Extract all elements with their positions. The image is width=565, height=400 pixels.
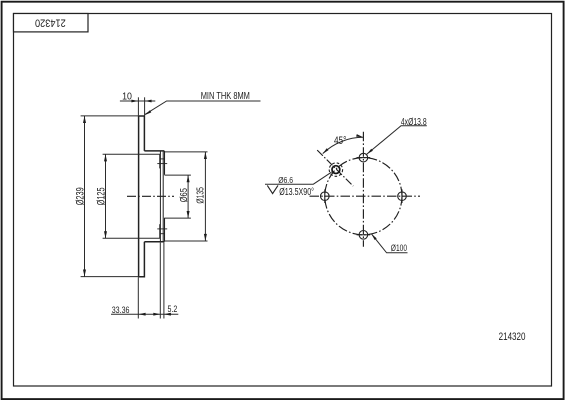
dim 125 extension top xyxy=(103,153,161,155)
arrow 135 bottom xyxy=(204,234,207,241)
bolt hole left xyxy=(321,192,330,201)
bolt hole bottom xyxy=(359,231,368,240)
title box xyxy=(14,14,89,32)
dim 65 line xyxy=(187,175,189,218)
dim 239 extension top xyxy=(81,115,139,117)
arrow 33.36 left xyxy=(139,313,146,316)
flange mid line xyxy=(162,151,164,242)
flange front face lower xyxy=(164,218,166,242)
arrow 65 top xyxy=(187,175,190,182)
bolt hole right xyxy=(398,192,407,201)
dim 239 extension bottom xyxy=(81,276,140,278)
svg-text:45°: 45° xyxy=(334,135,346,147)
countersink dashed circle xyxy=(329,163,342,176)
svg-text:Ø100: Ø100 xyxy=(391,243,407,254)
dim 65 extension top xyxy=(165,174,191,176)
hub tick upper 2 xyxy=(157,163,167,165)
arrow 239 top xyxy=(83,116,86,123)
dim 125 line xyxy=(105,154,107,238)
dim 10 extension right xyxy=(144,97,146,115)
arrow 125 top xyxy=(104,154,107,161)
arrow leader dia100 xyxy=(371,234,376,240)
svg-text:214320: 214320 xyxy=(499,331,526,343)
arrow 125 bottom xyxy=(104,231,107,238)
dim 135 line xyxy=(204,152,206,241)
dim 10 extension left xyxy=(137,97,139,115)
dim 10 line xyxy=(120,100,155,102)
tick top hole xyxy=(357,157,371,159)
svg-text:214320: 214320 xyxy=(35,16,66,28)
dim 135 extension bottom xyxy=(165,240,208,242)
horizontal centerline xyxy=(310,195,421,197)
leader 4x13.8 xyxy=(367,126,427,155)
dim 125 extension bottom xyxy=(103,237,161,239)
leader countersink xyxy=(265,172,332,184)
arrow 239 bottom xyxy=(83,270,86,277)
arrow 45 arc bottom xyxy=(323,148,329,154)
hub step left lower xyxy=(159,224,161,238)
leader dia100 xyxy=(371,234,407,253)
svg-text:Ø13.5X90°: Ø13.5X90° xyxy=(279,187,314,198)
arrow leader 4x13.8 xyxy=(367,149,373,155)
svg-text:5.2: 5.2 xyxy=(168,304,178,315)
dim 65 extension bottom xyxy=(165,217,191,219)
dim bottom extension c xyxy=(163,243,165,319)
hat top surface xyxy=(144,150,164,152)
arrow 10 right xyxy=(145,100,152,103)
arrow 45 arc top xyxy=(356,134,363,137)
flange back face xyxy=(159,151,161,242)
svg-text:Ø125: Ø125 xyxy=(95,187,107,205)
bolt circle dia100 xyxy=(325,158,402,235)
svg-text:MIN THK 8MM: MIN THK 8MM xyxy=(201,91,250,102)
tick right hole xyxy=(401,189,403,203)
svg-text:10: 10 xyxy=(122,92,132,103)
arrow MIN THK leader xyxy=(145,110,152,115)
tick left hole xyxy=(324,189,326,203)
arrow 65 bottom xyxy=(187,211,190,218)
dim bottom extension a xyxy=(137,278,139,319)
dim bottom line xyxy=(111,313,178,315)
arrow 33.36 right xyxy=(153,313,160,316)
svg-text:Ø65: Ø65 xyxy=(179,188,190,202)
hub step left upper xyxy=(159,154,161,168)
arrow 10 left xyxy=(131,100,138,103)
hub tick lower 1 xyxy=(160,233,164,235)
disc plate outline xyxy=(139,116,145,277)
dim 239 line xyxy=(84,116,86,277)
radial centerline 45deg xyxy=(317,150,353,186)
tick bottom hole xyxy=(357,234,371,236)
hub tick upper 1 xyxy=(160,158,164,160)
arrow 5.2 xyxy=(164,313,171,316)
leader MIN THK xyxy=(145,101,261,114)
arrow 135 top xyxy=(204,152,207,159)
countersink V symbol xyxy=(267,185,278,193)
vertical centerline xyxy=(362,132,364,247)
dim 135 extension top xyxy=(165,151,208,153)
arrows left view xyxy=(83,100,207,316)
dimension lines left view xyxy=(81,97,261,318)
countersunk hole xyxy=(332,166,340,174)
bolt hole top xyxy=(359,153,368,162)
svg-text:4xØ13.8: 4xØ13.8 xyxy=(401,117,427,128)
45deg dimension arc xyxy=(323,137,364,153)
svg-text:Ø135: Ø135 xyxy=(195,187,206,204)
centerline left view xyxy=(127,195,174,197)
svg-text:33.36: 33.36 xyxy=(112,305,130,316)
hat bottom surface xyxy=(144,241,164,243)
flange front face upper xyxy=(164,151,166,175)
hub tick lower 2 xyxy=(157,228,167,230)
dim bottom extension b xyxy=(159,243,161,319)
svg-text:Ø239: Ø239 xyxy=(75,187,87,205)
svg-text:Ø6.6: Ø6.6 xyxy=(278,175,293,185)
